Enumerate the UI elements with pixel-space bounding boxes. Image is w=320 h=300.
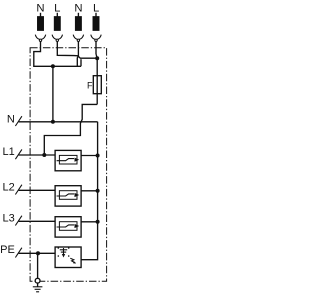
terminal N (top 3) plug [73, 13, 83, 42]
terminal N (top 3) label [74, 3, 82, 15]
svg-text:N: N [36, 3, 44, 15]
wire terminal4-L [95, 42, 97, 55]
earth terminal circle [35, 278, 40, 283]
svg-text:F: F [87, 80, 93, 90]
node N label [7, 113, 15, 125]
L3 line slash [15, 216, 22, 226]
wire L3 row right stub [81, 221, 98, 223]
node PE dot [36, 251, 40, 255]
terminal N (top 1) label [36, 3, 44, 15]
SPD arrester L2 box [55, 186, 81, 206]
node L1 label [3, 146, 15, 158]
svg-text:L: L [93, 3, 99, 15]
wire N row [19, 121, 98, 123]
terminal L (top 4) label [93, 3, 99, 15]
wire terminal1-N dogleg [34, 42, 53, 67]
wire L2 row [19, 189, 56, 191]
wire fuse to L1 with hop over N [44, 104, 97, 155]
wire N tick up [80, 59, 82, 66]
node L1 feed dot [42, 153, 46, 157]
terminal L (top 4) plug [91, 13, 101, 42]
terminal L (top 2) label [54, 3, 60, 15]
svg-text:L3: L3 [3, 212, 15, 224]
enclosure dash-dot border [30, 48, 107, 281]
fuse F body [93, 76, 101, 94]
svg-text:L1: L1 [3, 146, 15, 158]
terminal L (top 2) plug [52, 13, 62, 42]
wire L1 row right stub [81, 155, 98, 157]
N line slash [15, 116, 22, 126]
wire L1 row [19, 154, 56, 156]
fuse label F [87, 80, 93, 90]
svg-text:N: N [74, 3, 82, 15]
wire PE to earth [37, 253, 39, 278]
svg-text:L: L [54, 3, 60, 15]
wire N vertical from top join [52, 66, 54, 122]
svg-text:PE: PE [0, 244, 15, 256]
ground symbol [33, 287, 43, 292]
node L1 bus dot [96, 154, 100, 158]
wire L2 row right stub [81, 190, 98, 192]
wire N horizontal upper [53, 65, 81, 67]
terminal N (top 1) plug [35, 13, 45, 42]
svg-text:N: N [7, 113, 15, 125]
wire earth stub [37, 283, 39, 287]
node L3 bus dot [96, 220, 100, 224]
node N-join dot [51, 64, 55, 68]
SPD arrester L3 box [55, 217, 81, 237]
PE line slash [15, 248, 22, 258]
SPD arrester L1 box [55, 150, 81, 170]
node L2 bus dot [96, 189, 100, 193]
spark gap N-PE box [55, 247, 81, 268]
L1 line slash [15, 149, 22, 159]
wire right bus [81, 122, 98, 260]
svg-text:L2: L2 [3, 181, 15, 193]
node N-row dot [51, 120, 55, 124]
node fuse-top dot [95, 56, 99, 60]
wire terminal3-N with hop [77, 42, 78, 67]
wire PE row [19, 252, 56, 254]
node L3 label [3, 212, 15, 224]
node L2 label [3, 181, 15, 193]
wire terminal2-L to fuse [57, 42, 97, 59]
wire L3 row [19, 220, 56, 222]
node PE label [0, 244, 15, 256]
fuse wire through [96, 58, 98, 104]
L2 line slash [15, 185, 22, 195]
